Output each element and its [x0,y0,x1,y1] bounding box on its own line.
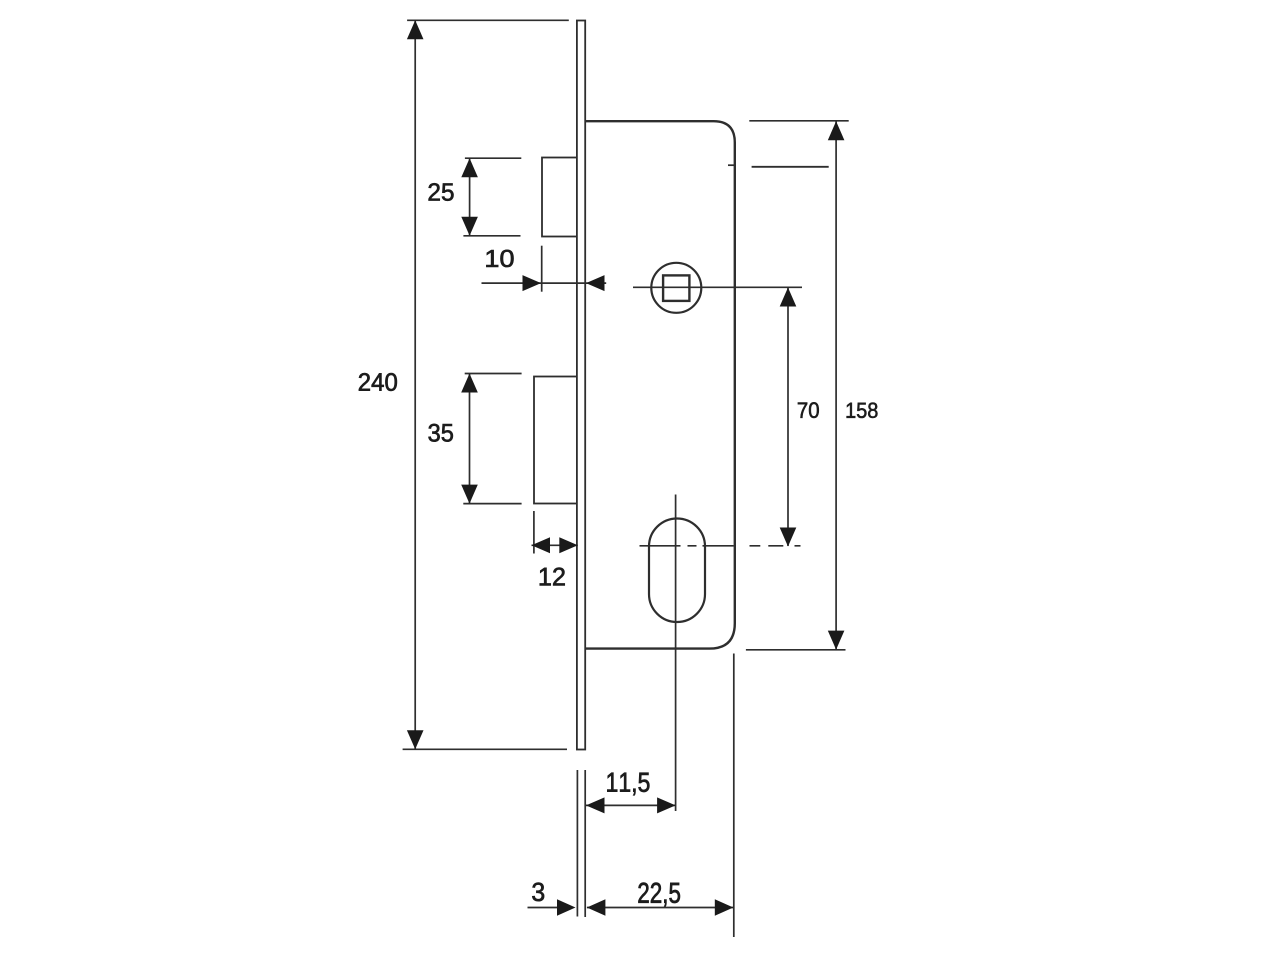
dim 35 bottom extension line [463,503,521,505]
lock body outline [586,121,735,648]
cylinder oval hole [649,519,705,623]
dim 12 arrow left [532,537,551,553]
dim 12 arrow right [559,537,578,553]
dim 158 label [847,403,878,418]
dim 25 bottom extension line [463,235,520,237]
dim 12 line [532,544,578,546]
dim 12 label [540,568,565,586]
faceplate lower extension line left [576,770,578,917]
dim 158 mid extension line [752,166,829,168]
dim 240 line [414,21,416,749]
dim 158 line [835,121,837,649]
dim 3 label [532,883,544,902]
dim 11,5 line [586,804,676,806]
cylinder dashed centerline [640,545,801,547]
dim 240 top extension line [407,19,569,21]
oval vertical centerline [675,495,677,812]
dim 25 arrow down [461,217,478,236]
spindle horizontal centerline [633,286,802,288]
dim 158 arrow up [828,121,845,140]
faceplate lower extension line right [584,770,586,917]
dim 158 tick at body edge [728,164,735,166]
dim 22,5 arrow right [715,899,734,916]
dim 35 top extension line [465,373,522,375]
dim 10 arrow left [586,275,605,291]
dim 158 bottom extension line [746,649,846,651]
dim 22,5 line [587,907,733,909]
spindle hole circle [651,263,701,313]
dim 22,5 label [638,883,680,907]
dim 3 tail line [528,907,559,909]
dim 35 line [469,374,471,504]
dim 25 line [469,158,471,236]
dim 25 label [429,183,454,201]
dim 240 bottom extension line [403,748,567,750]
dim 70 label [798,402,819,418]
dim 22,5 arrow left [587,899,606,916]
dim 70 line [787,288,789,546]
dim 10 label [486,250,513,267]
dim 240 arrow down [407,730,424,749]
dim 11,5 arrow left [586,797,605,813]
dim 10 extension line [541,246,543,292]
faceplate double line [577,21,585,750]
dim 70 arrow down [780,528,797,547]
body lower extension line [733,654,735,938]
dim 3 arrow right [557,899,576,916]
dim 240 arrow up [407,20,424,39]
dim 25 arrow up [461,158,478,177]
dim 11,5 label [607,773,649,795]
dim 35 arrow up [461,374,478,393]
deadbolt box (35) [534,377,577,504]
dim 158 arrow down [828,631,845,650]
dim 35 label [429,424,453,442]
dim 25 top extension line [465,157,521,159]
dim 10 arrow right [523,275,542,291]
dim 70 arrow up [780,288,797,307]
latch box (25) [542,158,577,237]
spindle square [663,275,689,301]
dim 11,5 arrow right [657,797,676,813]
dim 240 label [359,373,397,391]
dim 12 extension line [533,511,535,554]
dim 158 top extension line [749,120,848,122]
dim 10 line [482,282,607,284]
dim 35 arrow down [461,485,478,504]
